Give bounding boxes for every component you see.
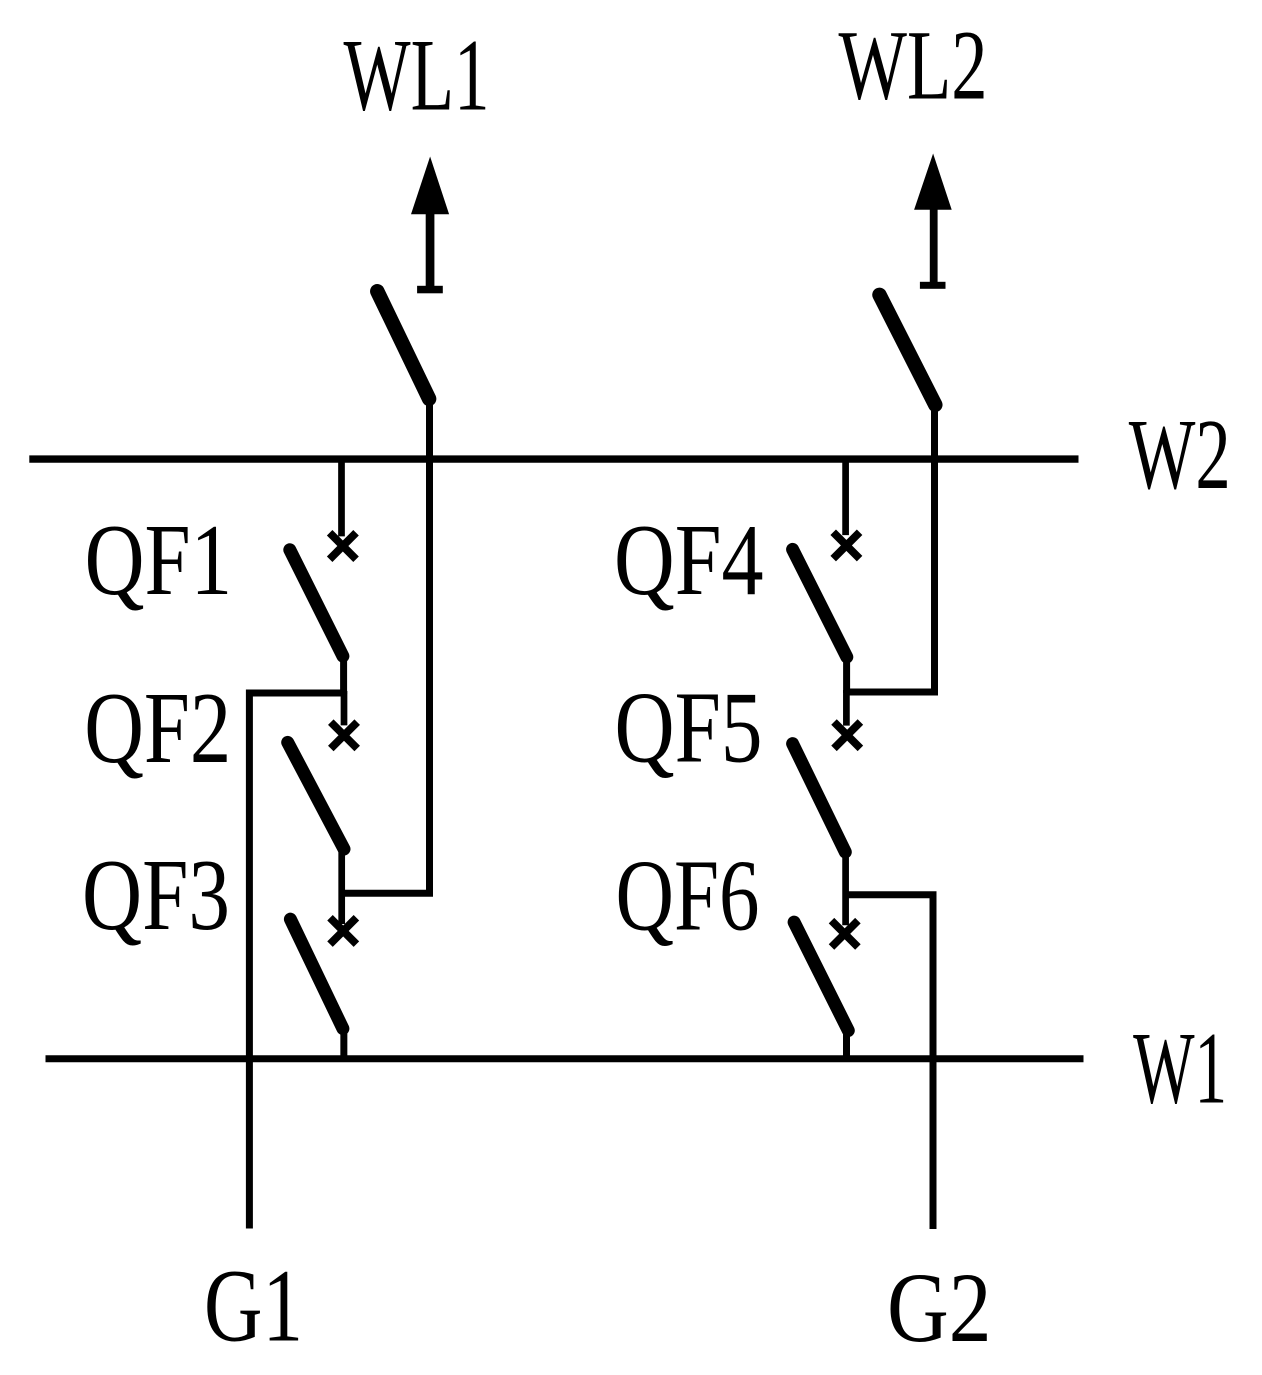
svg-text:QF2: QF2 bbox=[84, 672, 231, 784]
breaker QF5 blade bbox=[793, 744, 846, 852]
bus W1 bbox=[46, 1055, 1084, 1062]
breaker QF6 contact cross bbox=[832, 921, 858, 947]
breaker QF5 contact cross bbox=[834, 722, 860, 748]
wire QF1 lower stub bbox=[340, 652, 347, 694]
outgoing line WL2 arrow bbox=[914, 154, 952, 289]
switch blade at WL1 feeder bbox=[377, 291, 429, 399]
svg-text:QF6: QF6 bbox=[616, 839, 760, 951]
breaker QF2 tap wire bbox=[341, 691, 348, 725]
wire QF2 lower stub to QF3 bbox=[338, 845, 345, 924]
wire G2 elbow and riser bbox=[844, 895, 933, 1229]
wire WL2 column down to QF4/QF5 junction bbox=[847, 402, 935, 692]
breaker QF4 blade bbox=[793, 549, 847, 657]
breaker QF2 blade bbox=[288, 742, 344, 849]
breaker QF5 tap wire bbox=[843, 690, 850, 726]
breaker QF1 contact cross bbox=[330, 533, 356, 559]
wire G1 elbow and riser bbox=[249, 693, 345, 1229]
svg-text:G1: G1 bbox=[204, 1250, 303, 1364]
breaker QF4 tap wire from bus W2 bbox=[842, 456, 849, 535]
breaker QF2 contact cross bbox=[331, 722, 357, 748]
breaker QF3 blade bbox=[290, 919, 343, 1028]
svg-text:QF4: QF4 bbox=[614, 504, 764, 616]
breaker QF4 contact cross bbox=[833, 532, 859, 558]
bus W2 bbox=[29, 455, 1078, 462]
breaker QF1 blade bbox=[290, 550, 343, 656]
svg-text:WL2: WL2 bbox=[839, 9, 988, 120]
wire QF4 lower stub bbox=[843, 653, 850, 693]
svg-text:WL1: WL1 bbox=[344, 19, 490, 133]
wire QF5 lower stub to QF6 bbox=[842, 848, 849, 925]
svg-text:W1: W1 bbox=[1133, 1012, 1227, 1125]
svg-text:W2: W2 bbox=[1129, 399, 1231, 510]
outgoing line WL1 arrow bbox=[411, 157, 449, 294]
svg-text:QF3: QF3 bbox=[82, 839, 230, 951]
svg-text:QF5: QF5 bbox=[615, 672, 763, 784]
wire WL1 column down to QF2/QF3 junction bbox=[344, 396, 430, 893]
switch blade at WL2 feeder bbox=[880, 295, 936, 405]
wire QF3 lower stub to bus W1 bbox=[340, 1025, 347, 1059]
breaker QF6 blade bbox=[794, 922, 848, 1030]
breaker QF1 tap wire from bus W2 bbox=[338, 456, 345, 536]
wire QF6 lower stub to bus W1 bbox=[843, 1027, 850, 1059]
breaker QF3 contact cross bbox=[330, 918, 356, 944]
svg-text:QF1: QF1 bbox=[85, 504, 233, 616]
svg-text:G2: G2 bbox=[887, 1252, 992, 1363]
